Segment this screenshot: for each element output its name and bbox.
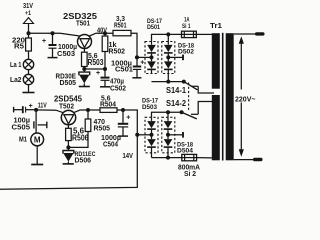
node 14V-D503 — [135, 133, 139, 137]
ground below C503 — [48, 57, 58, 59]
terminal left of C505 — [13, 107, 15, 113]
test point +1 31V — [23, 1, 34, 34]
lamp La2 — [10, 74, 34, 84]
label 220V arrow — [235, 36, 256, 157]
svg-text:11V: 11V — [38, 103, 47, 110]
svg-text:C502: C502 — [110, 84, 126, 93]
svg-text:D503: D503 — [142, 104, 157, 111]
capacitor C505 — [12, 103, 37, 132]
node rail-C503 — [50, 31, 54, 35]
motor M1 — [19, 133, 44, 146]
node 11V — [34, 108, 38, 112]
node AC top — [166, 32, 170, 36]
node D504 mid — [166, 133, 170, 137]
svg-text:Si 1: Si 1 — [182, 23, 191, 30]
svg-text:C505: C505 — [12, 123, 31, 132]
wire to rectifier D503 — [137, 134, 151, 136]
svg-text:La2: La2 — [10, 77, 22, 84]
node C501 top — [135, 55, 139, 59]
svg-text:14V: 14V — [123, 153, 134, 160]
node rail-R502 — [103, 31, 107, 35]
terminal mains top — [255, 32, 265, 35]
wire La1-La2 — [28, 70, 30, 75]
wire 31V rail — [29, 33, 80, 36]
wire primary top — [234, 33, 255, 35]
resistor R506 — [66, 127, 89, 148]
svg-text:D501: D501 — [147, 24, 160, 31]
svg-text:C504: C504 — [103, 140, 119, 149]
node D502 mid — [166, 55, 170, 59]
svg-text:C501: C501 — [115, 65, 133, 74]
ground below C502 — [100, 86, 110, 88]
svg-text:La 1: La 1 — [10, 62, 22, 69]
node zener D506 — [66, 145, 70, 149]
ground below D505 — [79, 86, 90, 88]
zener D506 RD11EC — [63, 147, 96, 164]
svg-text:T501: T501 — [76, 18, 90, 27]
svg-text:+: + — [96, 70, 100, 77]
wire base node — [84, 68, 105, 70]
svg-text:D506: D506 — [75, 155, 92, 164]
wire rectifier lower bottom — [152, 157, 182, 159]
svg-text:220V~: 220V~ — [235, 94, 256, 103]
svg-text:D502: D502 — [178, 49, 194, 56]
wire primary bottom — [234, 159, 253, 161]
capacitor C501 — [111, 57, 144, 77]
svg-text:S14-2: S14-2 — [166, 99, 187, 108]
svg-text:T502: T502 — [59, 102, 74, 111]
ground below C504 — [118, 135, 128, 137]
node D503 mid — [150, 133, 154, 137]
svg-text:R504: R504 — [100, 100, 117, 109]
svg-text:S14-1: S14-1 — [166, 86, 187, 95]
transistor T502 2SD545 — [54, 95, 83, 129]
transistor T501 2SD325 — [63, 12, 107, 52]
fuse Si1 1A — [182, 17, 197, 38]
wire 14V rail — [74, 110, 138, 135]
wire 40V rail — [89, 33, 137, 57]
svg-text:+: + — [42, 38, 46, 45]
terminal D502 — [182, 55, 184, 61]
svg-text:R503: R503 — [88, 58, 104, 67]
node R503-D505 — [82, 67, 86, 71]
svg-text:R501: R501 — [114, 21, 127, 30]
rectifier stack D503 DS-17 — [142, 98, 158, 158]
wire to rectifier D501 — [137, 56, 152, 58]
svg-text:Si 2: Si 2 — [184, 171, 196, 178]
wire AC mid rail — [152, 112, 182, 117]
wire D504 tap — [168, 134, 183, 136]
svg-text:D504: D504 — [177, 148, 193, 155]
svg-text:31V: 31V — [23, 1, 33, 10]
ground below La2 — [23, 85, 35, 93]
node AC mid — [166, 110, 170, 114]
wire 11V rail to T502 — [36, 110, 63, 113]
wire common exit — [0, 135, 137, 189]
svg-text:R506: R506 — [72, 134, 89, 143]
svg-text:+: + — [126, 115, 130, 122]
rectifier stack D501 DS-17 — [145, 18, 162, 74]
resistor R505 — [70, 110, 110, 147]
capacitor at motor — [34, 121, 47, 128]
svg-text:D505: D505 — [60, 78, 77, 87]
capacitor C503 — [42, 33, 77, 58]
ground below C501 — [132, 77, 141, 79]
switch S14-1 — [166, 82, 214, 95]
svg-text:Tr1: Tr1 — [210, 23, 222, 30]
terminal mains bottom — [253, 158, 263, 161]
switch S14-2 — [166, 99, 212, 119]
transformer Tr1 — [210, 23, 234, 160]
switch link dashed — [188, 83, 190, 112]
lamp La1 — [10, 59, 34, 69]
node C504 top — [121, 108, 125, 112]
node S14-2 pole — [180, 110, 184, 114]
ground below motor — [31, 146, 43, 165]
resistor R501 — [113, 14, 131, 36]
svg-text:R505: R505 — [94, 124, 111, 133]
fuse Si2 800mA — [178, 154, 212, 178]
svg-text:M1: M1 — [19, 137, 27, 144]
wire AC top rail — [152, 34, 212, 41]
resistor R502 — [102, 33, 125, 69]
node bottom D504 — [166, 156, 170, 160]
wire D502 tap — [168, 56, 183, 58]
resistor R503 — [82, 51, 104, 69]
node bottom D502 — [166, 80, 170, 84]
svg-text:R5: R5 — [14, 42, 24, 51]
svg-text:+: + — [29, 103, 33, 110]
capacitor C504 — [101, 110, 130, 149]
zener D505 RD30E — [56, 69, 90, 87]
capacitor C502 — [96, 69, 126, 93]
node C502 top — [103, 67, 107, 71]
node rail-R5 — [26, 31, 30, 35]
node R505 top — [86, 108, 90, 112]
svg-text:+1: +1 — [25, 10, 31, 17]
wire 11V down to motor — [35, 110, 37, 133]
node S14-1 pole — [182, 80, 186, 84]
ground below D506 — [63, 163, 74, 165]
svg-text:M: M — [34, 136, 41, 145]
resistor R5 — [12, 33, 31, 59]
wire rectifier upper bottom — [152, 81, 184, 83]
rectifier stack D502 DS-18 — [162, 34, 195, 81]
rectifier stack D504 DS-18 — [162, 112, 194, 157]
svg-text:+: + — [140, 60, 144, 67]
svg-text:R502: R502 — [109, 46, 126, 55]
terminal D504 — [182, 132, 184, 138]
svg-text:C503: C503 — [57, 51, 75, 58]
node D501 mid — [150, 55, 154, 59]
resistor R504 — [100, 93, 117, 112]
